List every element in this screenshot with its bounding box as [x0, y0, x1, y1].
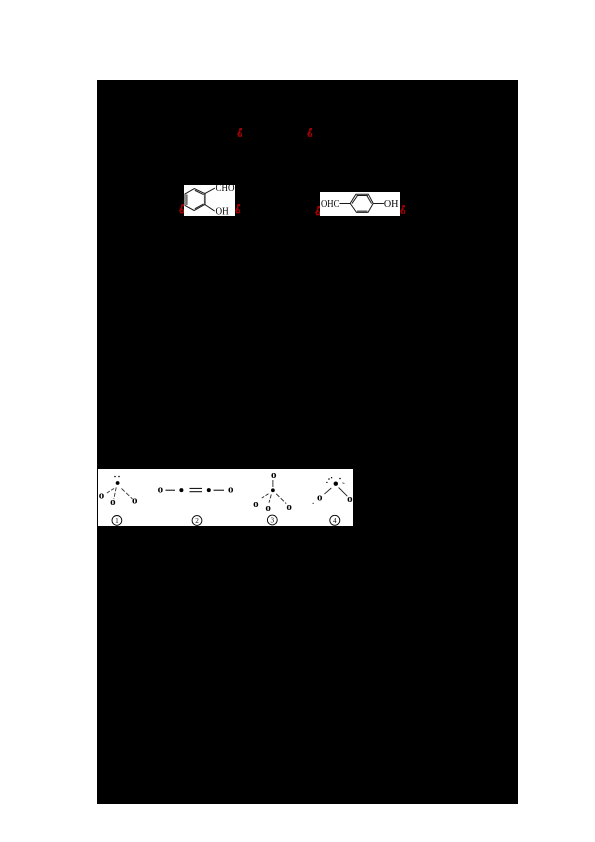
- svg-text:CHO: CHO: [216, 185, 235, 194]
- svg-text:o: o: [110, 496, 116, 508]
- svg-text:o: o: [317, 491, 323, 503]
- svg-text:o: o: [253, 498, 259, 510]
- svg-text:2: 2: [195, 517, 199, 525]
- svg-text:o: o: [347, 493, 353, 505]
- svg-text:o: o: [99, 490, 105, 502]
- svg-text:o: o: [158, 484, 164, 496]
- svg-text:OH: OH: [216, 207, 229, 217]
- svg-text:OH: OH: [384, 199, 399, 210]
- svg-text:OHC: OHC: [321, 199, 340, 210]
- svg-text:o: o: [271, 469, 277, 481]
- svg-text:3: 3: [271, 517, 275, 525]
- svg-text:o: o: [132, 494, 138, 506]
- svg-text:4: 4: [333, 517, 337, 525]
- svg-text:o: o: [286, 501, 292, 513]
- svg-text:o: o: [265, 502, 271, 514]
- svg-text:1: 1: [115, 517, 119, 525]
- svg-text:o: o: [228, 484, 234, 496]
